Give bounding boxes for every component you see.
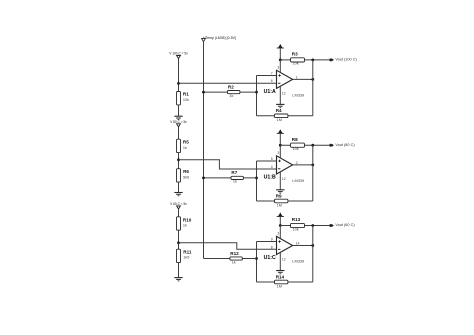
wire: R6 to ground [178, 182, 180, 193]
svg-text:9: 9 [271, 238, 273, 242]
svg-text:U1:B: U1:B [264, 175, 276, 181]
minus symbol (U1A) [278, 82, 280, 84]
plus symbol (U1C) [278, 241, 280, 243]
svg-text:R5: R5 [183, 140, 189, 145]
wire: Rin from VTemp rail (U1C) [204, 258, 257, 260]
ground (chain 2) [174, 192, 182, 194]
wire: R10 to junction [178, 230, 180, 250]
wire: R11 to ground [178, 262, 180, 278]
svg-text:R4: R4 [276, 108, 282, 113]
resistor R2 [228, 91, 240, 94]
comparator U1:B triangle [277, 156, 293, 174]
wire: R1 to ground [178, 105, 180, 116]
wire: feedback bottom (U1B) [257, 200, 313, 202]
wire: divider3 tap to U1:C inverting input [179, 243, 277, 249]
junction: output node at rail (U1C) [311, 224, 314, 227]
wire: + input stub (U1C) [257, 241, 277, 243]
wire: Rin from VTemp rail (U1A) [204, 91, 257, 93]
svg-text:R13: R13 [292, 217, 301, 222]
svg-text:1k: 1k [183, 224, 187, 228]
wire: GND pin 12 (U1C) [279, 252, 281, 270]
resistor R11 [177, 249, 181, 262]
ground (chain 1) [174, 115, 182, 117]
wire: + input stub (U1B) [257, 160, 277, 162]
svg-text:Vout (60 C): Vout (60 C) [335, 223, 355, 227]
svg-text:5: 5 [271, 157, 273, 161]
svg-text:2: 2 [296, 161, 298, 165]
junction: divider1 tap [177, 82, 180, 85]
resistor R8 [291, 143, 305, 147]
wire: VCC arrow to rail (U1A) [279, 48, 281, 60]
svg-text:R11: R11 [183, 250, 192, 255]
junction: VCC rail (U1A) [279, 59, 282, 62]
ground (U1B) [276, 189, 284, 191]
wire: output (U1A) [293, 78, 313, 80]
junction: Rin joins + input (U1C) [255, 257, 258, 260]
svg-text:Vout (100 C): Vout (100 C) [335, 58, 357, 62]
resistor R13 [291, 223, 305, 227]
resistor R14 [275, 280, 288, 284]
svg-text:R1: R1 [183, 92, 189, 97]
ground (U1A) [276, 103, 284, 105]
wire: Rin from VTemp rail (U1B) [204, 177, 257, 179]
svg-text:5k6: 5k6 [183, 175, 189, 179]
comparator U1:A triangle [277, 70, 293, 88]
svg-text:R3: R3 [292, 52, 298, 57]
wire: + input stub (U1A) [257, 74, 277, 76]
junction: divider3 tap [177, 241, 180, 244]
wire: feedback bottom (U1A) [257, 115, 313, 117]
svg-text:10k: 10k [183, 98, 189, 102]
junction: divider2 tap [177, 158, 180, 161]
svg-text:3: 3 [277, 151, 279, 155]
plus symbol (U1B) [278, 160, 280, 162]
svg-text:Vout (80 C): Vout (80 C) [335, 143, 355, 147]
wire: output (U1C) [293, 244, 313, 246]
wire: VCC pin 3 (U1C) [279, 226, 281, 239]
wire: divider2 tap to U1:B inverting input [179, 160, 277, 169]
junction: Rin joins + input (U1B) [255, 177, 258, 180]
junction: output feedback tee (U1C) [311, 244, 314, 247]
wire: pull-up rail (U1B) [280, 144, 330, 146]
plus symbol (U1A) [278, 74, 280, 76]
wire: V80 flag down to R5 [178, 127, 180, 139]
wire: VCC arrow to rail (U1B) [279, 133, 281, 145]
ground (chain 3) [174, 277, 182, 279]
svg-text:1k: 1k [183, 146, 187, 150]
svg-text:3: 3 [277, 65, 279, 69]
svg-text:1k5: 1k5 [183, 256, 189, 260]
wire: GND pin 12 (U1A) [279, 86, 281, 104]
wire: feedback left vertical (U1C) [256, 242, 258, 282]
svg-text:R8: R8 [292, 137, 298, 142]
svg-text:12: 12 [282, 91, 286, 95]
output terminal (U1B) [329, 144, 332, 147]
junction: output node at rail (U1A) [311, 59, 314, 62]
svg-text:U1:A: U1:A [264, 89, 276, 95]
junction: VCC rail (U1B) [279, 144, 282, 147]
power VCC arrow (U1C) [278, 213, 283, 217]
svg-text:10k: 10k [293, 227, 299, 231]
junction: output feedback tee (U1B) [311, 164, 314, 167]
svg-text:VTemp (LM35) [0-5V]: VTemp (LM35) [0-5V] [203, 36, 236, 40]
svg-text:R2: R2 [228, 84, 234, 89]
resistor R1 [177, 92, 181, 105]
wire: V60 flag down to R10 [178, 209, 180, 217]
junction: output node at rail (U1B) [311, 144, 314, 147]
ground (U1C) [276, 270, 284, 272]
wire: feedback right vertical (U1B) [312, 145, 314, 201]
wire: feedback bottom (U1C) [257, 281, 313, 283]
wire: divider1 tap to U1:A inverting input [179, 82, 277, 84]
wire: feedback right vertical (U1A) [312, 60, 314, 116]
power flag V60 [177, 206, 181, 209]
wire: VCC pin 3 (U1B) [279, 145, 281, 158]
resistor R6 [177, 169, 181, 182]
comparator U1:C triangle [277, 236, 293, 254]
svg-text:R7: R7 [231, 170, 237, 175]
svg-text:4: 4 [271, 165, 273, 169]
junction: VTemp rail tap (U1A) [202, 91, 205, 94]
svg-text:U1:C: U1:C [264, 255, 276, 261]
svg-text:8: 8 [271, 245, 273, 249]
wire: R5 to junction [178, 153, 180, 170]
resistor R4 [275, 114, 288, 118]
wire: VCC arrow to rail (U1C) [279, 217, 281, 226]
minus symbol (U1B) [278, 168, 280, 170]
svg-text:1k: 1k [233, 180, 237, 184]
svg-text:1k: 1k [232, 260, 236, 264]
resistor R5 [177, 139, 181, 152]
svg-text:1M: 1M [277, 118, 282, 122]
svg-text:R6: R6 [183, 169, 189, 174]
svg-text:14: 14 [296, 241, 300, 245]
wire: VTemp rail corner to R12 [204, 258, 257, 260]
svg-text:R10: R10 [183, 217, 192, 222]
wire: GND pin 12 (U1B) [279, 172, 281, 190]
svg-text:1k: 1k [229, 94, 233, 98]
wire: feedback left vertical (U1A) [256, 75, 258, 115]
junction: VCC rail (U1C) [279, 224, 282, 227]
output terminal (U1A) [329, 58, 332, 61]
wire: feedback left vertical (U1B) [256, 161, 258, 201]
svg-text:1M: 1M [277, 284, 282, 288]
junction: VTemp rail tap (U1B) [202, 177, 205, 180]
wire: VTemp rail vertical [203, 42, 205, 259]
wire: VCC pin 3 (U1A) [279, 60, 281, 73]
svg-text:1: 1 [296, 75, 298, 79]
svg-text:R9: R9 [276, 193, 282, 198]
wire: output (U1B) [293, 164, 313, 166]
power VCC arrow (U1B) [278, 129, 283, 133]
svg-text:7: 7 [271, 71, 273, 75]
svg-text:R12: R12 [230, 251, 239, 256]
junction: output feedback tee (U1A) [311, 78, 314, 81]
power VCC arrow (U1A) [278, 44, 283, 48]
power flag V100 [177, 56, 181, 59]
minus symbol (U1C) [278, 248, 280, 250]
svg-text:LM339: LM339 [292, 178, 304, 183]
svg-text:3: 3 [277, 231, 279, 235]
svg-text:12: 12 [282, 177, 286, 181]
output terminal (U1C) [329, 224, 332, 227]
power flag V80 [177, 124, 181, 127]
svg-text:1M: 1M [277, 203, 282, 207]
wire: feedback right vertical (U1C) [312, 226, 314, 283]
resistor R7 [231, 176, 243, 179]
junction: Rin joins + input (U1A) [255, 91, 258, 94]
resistor R3 [291, 58, 305, 62]
svg-text:LM339: LM339 [292, 259, 304, 264]
resistor R10 [177, 217, 181, 230]
wire: V100 flag down to R1 [178, 59, 180, 92]
svg-text:LM339: LM339 [292, 93, 304, 98]
svg-text:10k: 10k [293, 62, 299, 66]
svg-text:12: 12 [282, 258, 286, 262]
svg-text:6: 6 [271, 79, 273, 83]
svg-text:R14: R14 [276, 274, 285, 279]
wire: pull-up rail (U1A) [280, 59, 330, 61]
wire: pull-up rail (U1C) [280, 225, 330, 227]
resistor R12 [230, 257, 242, 260]
resistor R9 [275, 199, 288, 203]
power flag VTemp [202, 39, 206, 42]
svg-text:10k: 10k [293, 147, 299, 151]
